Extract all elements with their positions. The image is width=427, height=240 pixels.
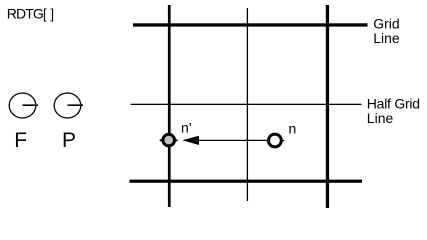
- svg-text:Line: Line: [367, 110, 394, 126]
- svg-text:RDTG[ ]: RDTG[ ]: [7, 6, 53, 22]
- half grid line horizontal (thin): [131, 104, 362, 105]
- node n' (filled grid point): [160, 134, 178, 146]
- grid line vertical right (thick): [326, 5, 329, 208]
- svg-text:Line: Line: [373, 30, 400, 46]
- half grid line vertical middle (thin): [247, 8, 248, 201]
- grid line vertical left (thick): [168, 5, 171, 207]
- svg-text:Grid: Grid: [373, 15, 399, 31]
- grid line horizontal bottom (thick): [130, 180, 363, 183]
- grid line horizontal top (thick): [133, 23, 368, 26]
- node n (open half-grid point): [266, 134, 284, 147]
- svg-text:n’: n’: [181, 120, 192, 136]
- svg-text:F: F: [14, 129, 27, 152]
- arrow from n to n': [182, 136, 267, 145]
- symbol circle F (circle with radius line): [9, 93, 38, 118]
- svg-text:P: P: [62, 129, 76, 152]
- symbol circle P (circle with radius line): [54, 93, 83, 118]
- svg-text:n: n: [289, 121, 297, 137]
